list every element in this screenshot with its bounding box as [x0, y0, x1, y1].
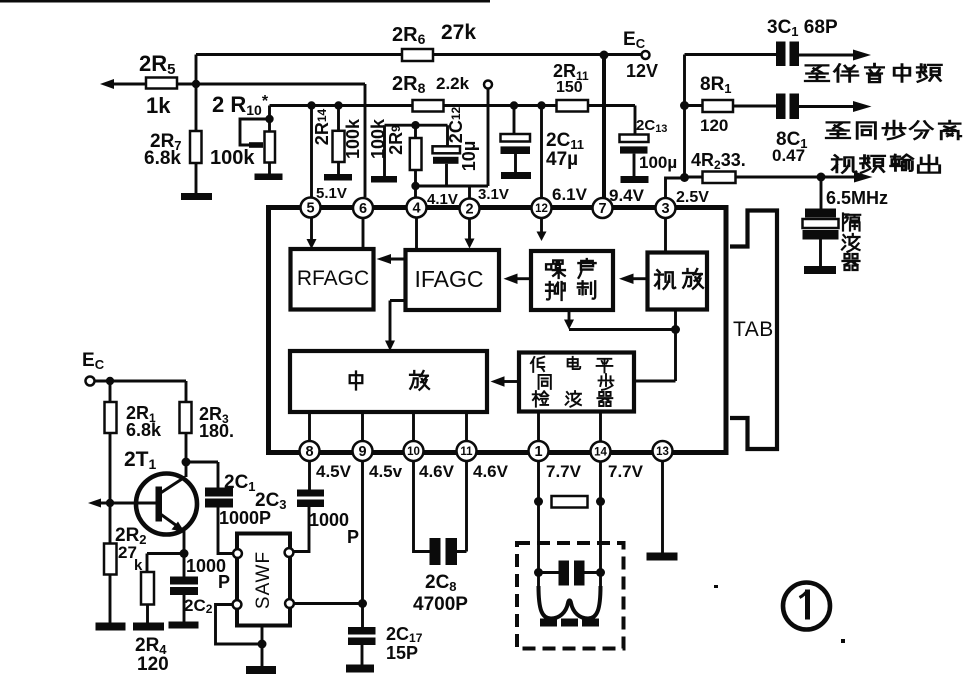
svg-text:2.5V: 2.5V	[676, 189, 709, 206]
svg-text:47µ: 47µ	[546, 149, 578, 170]
svg-text:8: 8	[305, 444, 313, 460]
svg-text:100k: 100k	[343, 118, 363, 159]
svg-text:IFAGC: IFAGC	[414, 266, 483, 292]
svg-text:7: 7	[598, 201, 606, 217]
svg-text:1: 1	[534, 444, 542, 460]
svg-text:9: 9	[358, 444, 366, 460]
svg-text:9.4V: 9.4V	[609, 186, 645, 205]
svg-text:5: 5	[306, 201, 314, 217]
svg-text:2: 2	[465, 202, 473, 218]
svg-text:120: 120	[137, 654, 169, 675]
svg-text:2C13: 2C13	[636, 117, 667, 135]
svg-text:2T1: 2T1	[124, 448, 157, 472]
svg-text:3: 3	[661, 201, 669, 217]
svg-text:EC: EC	[82, 350, 105, 372]
svg-text:5.1V: 5.1V	[316, 185, 347, 202]
svg-text:TAB: TAB	[733, 318, 774, 341]
svg-text:2 R10*: 2 R10*	[212, 92, 269, 118]
svg-text:4700P: 4700P	[413, 594, 468, 615]
svg-text:12V: 12V	[626, 61, 658, 81]
svg-text:27k: 27k	[441, 21, 476, 44]
svg-text:12: 12	[535, 203, 548, 215]
svg-text:6.8k: 6.8k	[126, 420, 162, 440]
svg-text:k: k	[134, 557, 143, 574]
svg-text:2R6: 2R6	[392, 24, 426, 47]
svg-text:150: 150	[556, 79, 583, 96]
svg-text:4.5V: 4.5V	[316, 462, 352, 481]
svg-text:6.5MHz: 6.5MHz	[826, 188, 888, 208]
svg-text:100µ: 100µ	[639, 153, 677, 172]
svg-text:1000P: 1000P	[219, 508, 271, 528]
svg-text:3.1V: 3.1V	[478, 186, 509, 203]
svg-text:2.2k: 2.2k	[436, 74, 470, 93]
svg-text:100k: 100k	[210, 147, 255, 169]
svg-text:2C17: 2C17	[386, 624, 423, 645]
svg-text:2R5: 2R5	[139, 51, 175, 78]
svg-text:2C3: 2C3	[255, 490, 287, 512]
svg-text:6.8k: 6.8k	[144, 148, 181, 169]
svg-text:120: 120	[700, 116, 728, 135]
svg-text:4R233.: 4R233.	[691, 150, 746, 172]
svg-text:4.6V: 4.6V	[473, 462, 509, 481]
svg-text:6: 6	[359, 201, 367, 217]
svg-text:100k: 100k	[368, 118, 388, 159]
svg-text:P: P	[347, 527, 359, 547]
svg-text:RFAGC: RFAGC	[297, 267, 369, 290]
svg-text:10: 10	[407, 446, 420, 458]
svg-text:4.1V: 4.1V	[427, 191, 458, 208]
svg-text:EC: EC	[623, 29, 646, 51]
svg-text:13: 13	[656, 446, 669, 458]
svg-text:6.1V: 6.1V	[552, 185, 588, 204]
svg-text:4.5v: 4.5v	[369, 462, 403, 481]
svg-text:SAWF: SAWF	[253, 551, 274, 609]
svg-text:2C1: 2C1	[224, 472, 256, 494]
svg-text:15P: 15P	[386, 643, 418, 663]
svg-text:11: 11	[460, 446, 473, 458]
svg-text:1k: 1k	[146, 93, 171, 118]
svg-text:2R9: 2R9	[386, 125, 406, 155]
svg-text:2C8: 2C8	[425, 572, 457, 594]
svg-text:4.6V: 4.6V	[419, 462, 455, 481]
svg-text:7.7V: 7.7V	[546, 462, 582, 481]
svg-text:4: 4	[412, 201, 420, 217]
svg-text:8R1: 8R1	[700, 74, 732, 96]
svg-text:10µ: 10µ	[459, 141, 479, 171]
svg-text:2C2: 2C2	[184, 596, 213, 616]
svg-text:7.7V: 7.7V	[608, 462, 644, 481]
svg-text:14: 14	[594, 447, 607, 459]
svg-text:2R8: 2R8	[392, 73, 426, 96]
svg-text:P: P	[218, 572, 230, 592]
svg-text:2R14: 2R14	[312, 108, 332, 145]
svg-text:1000: 1000	[309, 510, 349, 530]
svg-text:0.47: 0.47	[772, 146, 805, 165]
svg-text:180.: 180.	[199, 421, 234, 441]
svg-text:3C1 68P: 3C1 68P	[767, 17, 838, 39]
svg-text:2C12: 2C12	[446, 106, 466, 143]
